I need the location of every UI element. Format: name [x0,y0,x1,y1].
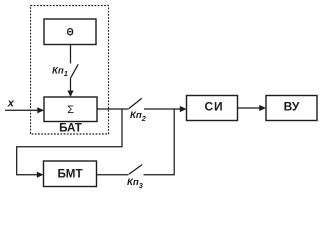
svg-text:БАТ: БАТ [59,122,82,135]
svg-text:Θ: Θ [67,27,74,39]
svg-text:СИ: СИ [205,100,224,114]
svg-text:x: x [7,98,15,110]
svg-text:Σ: Σ [67,104,74,116]
svg-text:ВУ: ВУ [284,100,300,114]
svg-text:БМТ: БМТ [57,168,82,181]
